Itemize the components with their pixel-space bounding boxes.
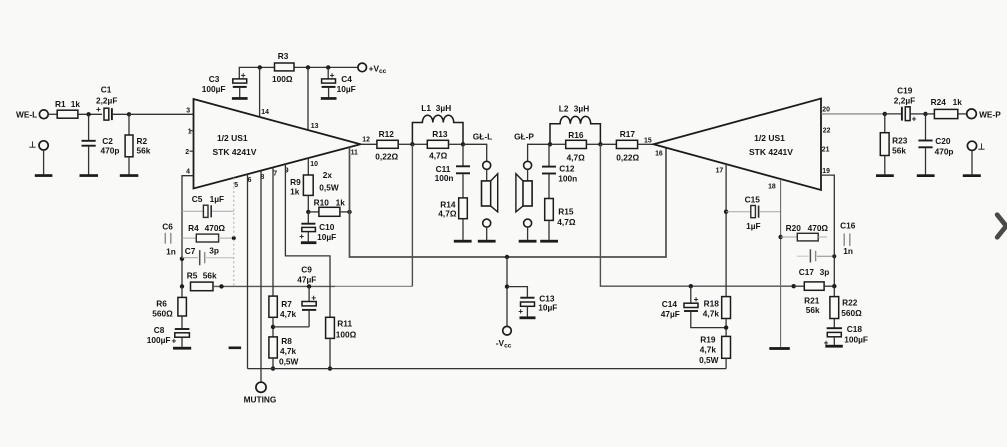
svg-text:C6: C6 <box>162 222 173 232</box>
wire pin 17 down <box>725 164 727 297</box>
inductor L1 <box>412 103 463 144</box>
svg-text:R5: R5 <box>187 270 198 280</box>
svg-text:R2: R2 <box>137 136 148 146</box>
junction C15 left node <box>724 210 728 214</box>
svg-text:R10: R10 <box>314 197 330 207</box>
svg-text:1/2 US1: 1/2 US1 <box>217 133 248 143</box>
junction C12 node <box>548 142 552 146</box>
capacitor C8 <box>147 325 190 347</box>
svg-text:10µF: 10µF <box>337 84 356 94</box>
svg-text:WE-P: WE-P <box>979 110 1001 120</box>
wire pin 7 down <box>272 167 274 296</box>
svg-text:4,7k: 4,7k <box>703 309 720 319</box>
svg-text:56k: 56k <box>892 146 906 156</box>
svg-text:⊥: ⊥ <box>978 141 985 151</box>
svg-text:100µF: 100µF <box>844 335 868 345</box>
resistor R4 <box>182 223 234 242</box>
junction R4 right node <box>232 236 236 240</box>
wire C1 to node B <box>112 113 129 115</box>
svg-text:R23: R23 <box>892 136 908 146</box>
svg-text:2,2µF: 2,2µF <box>96 95 117 105</box>
svg-text:+: + <box>518 306 523 316</box>
junction R9/R10/C10 node <box>306 210 310 214</box>
pin 1 <box>188 128 194 135</box>
svg-text:5: 5 <box>234 182 238 189</box>
svg-text:C8: C8 <box>154 325 165 335</box>
svg-text:R7: R7 <box>281 299 292 309</box>
svg-text:R17: R17 <box>620 129 636 139</box>
resistor R17 <box>600 129 653 163</box>
svg-text:560Ω: 560Ω <box>152 309 173 319</box>
speaker Gł-L <box>482 161 498 240</box>
svg-text:100Ω: 100Ω <box>272 74 293 84</box>
svg-text:1µF: 1µF <box>210 194 224 204</box>
wire pin 9 to R11 <box>285 164 330 317</box>
svg-text:R22: R22 <box>842 298 858 308</box>
wire to speaker right <box>528 144 550 161</box>
svg-text:470p: 470p <box>935 147 954 157</box>
junction C17 right node <box>832 254 836 258</box>
capacitor C2 <box>82 114 120 174</box>
resistor R12 <box>375 129 412 161</box>
svg-text:R20: R20 <box>786 223 802 233</box>
junction R16/R17 node <box>598 142 602 146</box>
capacitor C19 <box>885 86 926 124</box>
svg-text:1µF: 1µF <box>746 221 760 231</box>
ground under C13 <box>520 316 536 319</box>
ground under C3 <box>232 97 248 100</box>
svg-text:21: 21 <box>822 147 830 154</box>
inductor L2 <box>550 104 600 145</box>
svg-text:17: 17 <box>716 168 724 175</box>
capacitor C20 <box>918 114 953 174</box>
svg-text:560Ω: 560Ω <box>841 308 862 318</box>
ground under speaker Gł-L <box>478 240 496 243</box>
svg-text:1/2 US1: 1/2 US1 <box>754 133 785 143</box>
svg-text:56k: 56k <box>203 270 217 280</box>
svg-text:12: 12 <box>362 136 370 143</box>
svg-text:4,7k: 4,7k <box>280 346 297 356</box>
svg-text:C12: C12 <box>559 164 575 174</box>
svg-text:C9: C9 <box>301 264 312 274</box>
svg-text:10µF: 10µF <box>538 303 557 313</box>
wire R1 to node A <box>78 113 102 115</box>
svg-text:4,7k: 4,7k <box>280 309 297 319</box>
ground under R14 <box>454 240 472 243</box>
junction C20 node <box>923 112 927 116</box>
svg-text:STK 4241V: STK 4241V <box>749 147 793 157</box>
svg-text:19: 19 <box>822 168 830 175</box>
svg-text:+: + <box>96 104 101 114</box>
svg-text:C18: C18 <box>847 324 863 334</box>
capacitor C15 <box>726 194 781 231</box>
resistor R22 <box>830 286 862 328</box>
svg-text:470p: 470p <box>101 145 120 155</box>
resistor R14 <box>438 198 467 240</box>
svg-text:4,7k: 4,7k <box>700 345 717 355</box>
wire R16 node down to right rail <box>600 144 793 286</box>
svg-text:R18: R18 <box>704 299 720 309</box>
wire pin 14 <box>259 67 261 117</box>
chevron next-arrow <box>997 215 1006 237</box>
svg-text:4,7Ω: 4,7Ω <box>567 152 586 162</box>
svg-text:R3: R3 <box>278 51 289 61</box>
svg-text:R24: R24 <box>931 97 947 107</box>
junction R10 right node <box>347 210 351 214</box>
svg-text:1k: 1k <box>71 99 81 109</box>
wire L1 node down <box>411 144 413 286</box>
svg-text:100n: 100n <box>435 173 454 183</box>
capacitor C1 <box>96 84 117 120</box>
resistor R10 <box>308 197 349 216</box>
op-amp U1b 1/2 US1 STK4241V <box>654 99 822 191</box>
ground under C18 <box>825 345 843 348</box>
junction R3 right node <box>306 65 310 69</box>
capacitor C14 <box>661 286 726 327</box>
junction mid rail C13 node <box>505 255 509 259</box>
ground under C2 <box>80 174 99 177</box>
svg-text:15: 15 <box>644 137 652 144</box>
resistor R3 <box>272 51 294 84</box>
svg-text:R1: R1 <box>55 99 66 109</box>
op-amp U1a 1/2 US1 STK4241V <box>194 99 361 189</box>
wire to speaker left <box>463 144 487 161</box>
svg-text:10µF: 10µF <box>317 232 336 242</box>
capacitor C4 <box>322 67 356 97</box>
ground under speaker Gł-P <box>519 240 537 243</box>
resistor R24 <box>926 97 967 119</box>
svg-text:3p: 3p <box>209 245 219 255</box>
svg-text:100µF: 100µF <box>147 335 171 345</box>
svg-text:56k: 56k <box>137 146 151 156</box>
terminal MUTING <box>244 382 277 404</box>
junction R5 right node <box>219 284 223 288</box>
svg-text:⊥: ⊥ <box>29 140 36 150</box>
junction R18/R19 node <box>724 325 728 329</box>
terminal -Vcc <box>496 326 512 349</box>
resistor R7 <box>269 296 297 337</box>
capacitor C18 <box>824 324 868 347</box>
svg-text:R15: R15 <box>558 207 574 217</box>
svg-text:3p: 3p <box>820 267 830 277</box>
resistor R6 <box>152 286 186 328</box>
junction R8 bottom node <box>271 366 275 370</box>
svg-text:18: 18 <box>768 183 776 190</box>
resistor R23 <box>880 114 907 174</box>
svg-text:C19: C19 <box>897 86 913 96</box>
svg-text:+: + <box>912 113 917 123</box>
speaker Gł-P <box>516 161 532 240</box>
capacitor C17 <box>797 249 834 277</box>
resistor R13 <box>412 129 463 161</box>
wire pin 8 muting <box>260 171 262 383</box>
svg-text:L2: L2 <box>559 104 569 114</box>
junction node A <box>86 112 90 116</box>
ground under R2 <box>120 174 139 177</box>
junction C14 node <box>689 284 693 288</box>
svg-text:1: 1 <box>188 128 192 135</box>
ground under R15 <box>540 240 558 243</box>
svg-text:1k: 1k <box>290 186 300 196</box>
pin 2 <box>185 149 193 156</box>
wire pin 4 down <box>182 176 194 287</box>
ground under left terminal <box>35 174 53 177</box>
svg-text:16: 16 <box>655 150 663 157</box>
wire node B to pin 3 <box>129 113 194 115</box>
ground under C8 <box>173 347 191 350</box>
junction C4 node <box>326 65 330 69</box>
svg-text:47µF: 47µF <box>297 274 316 284</box>
svg-text:STK 4241V: STK 4241V <box>213 147 257 157</box>
ground under pin 18 <box>769 347 790 350</box>
capacitor C7 <box>182 245 234 265</box>
resistor R11 <box>326 317 357 368</box>
svg-text:C20: C20 <box>935 136 951 146</box>
junction C13 branch node <box>505 284 509 288</box>
svg-text:1n: 1n <box>166 246 176 256</box>
wire pin 19 down <box>821 175 834 286</box>
svg-text:470Ω: 470Ω <box>808 223 829 233</box>
svg-text:R8: R8 <box>281 336 292 346</box>
svg-text:C1: C1 <box>101 84 112 94</box>
ground under right terminal <box>963 174 981 177</box>
capacitor C13 <box>507 287 557 317</box>
svg-text:R11: R11 <box>337 319 352 329</box>
svg-text:47µF: 47µF <box>661 309 680 319</box>
svg-text:C15: C15 <box>745 194 761 204</box>
capacitor C6 <box>162 222 175 257</box>
svg-text:7: 7 <box>273 171 277 178</box>
svg-text:C5: C5 <box>192 194 203 204</box>
svg-text:10: 10 <box>310 161 318 168</box>
svg-text:2x: 2x <box>323 170 333 180</box>
capacitor C9 <box>273 264 316 327</box>
svg-text:11: 11 <box>351 150 358 157</box>
ground under C4 <box>321 97 337 100</box>
label 2x 0,5W <box>319 170 339 192</box>
svg-text:0,22Ω: 0,22Ω <box>375 151 398 161</box>
junction R11 bottom node <box>328 366 332 370</box>
svg-text:6: 6 <box>248 177 252 184</box>
wire pin 13 <box>307 67 309 129</box>
terminal WE-L <box>16 110 48 120</box>
wire C13 down <box>506 257 508 326</box>
svg-text:100µF: 100µF <box>202 84 226 94</box>
ground under C10 <box>301 241 317 244</box>
capacitor C10 <box>299 212 336 242</box>
resistor R21 <box>794 282 835 315</box>
svg-text:GŁ-P: GŁ-P <box>514 132 534 142</box>
svg-text:4,7Ω: 4,7Ω <box>429 151 448 161</box>
svg-text:1n: 1n <box>843 246 853 256</box>
wire pin 5 down (faint) <box>233 178 235 287</box>
wire pin 20 to C19 <box>821 113 885 115</box>
capacitor C3 <box>202 67 260 97</box>
svg-text:C4: C4 <box>341 74 352 84</box>
svg-text:WE-L: WE-L <box>16 110 37 120</box>
wire +Vcc rail <box>260 66 275 68</box>
svg-text:56k: 56k <box>806 305 820 315</box>
svg-text:0,5W: 0,5W <box>319 183 339 193</box>
svg-text:2: 2 <box>185 149 189 156</box>
resistor R16 <box>550 130 600 162</box>
svg-text:MUTING: MUTING <box>244 395 277 405</box>
resistor R9 <box>290 175 313 212</box>
svg-text:0,5W: 0,5W <box>699 355 719 365</box>
svg-text:0,5W: 0,5W <box>279 357 299 367</box>
junction R13/C11 node <box>461 142 465 146</box>
svg-text:0,22Ω: 0,22Ω <box>616 153 639 163</box>
resistor R2 <box>125 114 151 174</box>
resistor R19 <box>699 335 730 369</box>
wire pin 18 down to ground <box>780 179 782 347</box>
terminal WE-P <box>967 109 1002 120</box>
svg-text:4,7Ω: 4,7Ω <box>438 209 457 219</box>
terminal ground-left <box>29 140 48 175</box>
junction R12/L1 node <box>410 142 414 146</box>
svg-text:C16: C16 <box>840 220 856 230</box>
junction R6 node <box>180 284 184 288</box>
svg-text:470Ω: 470Ω <box>205 223 226 233</box>
svg-text:100n: 100n <box>558 174 577 184</box>
resistor R20 <box>781 223 829 241</box>
svg-text:4,7Ω: 4,7Ω <box>557 217 576 227</box>
junction C7 left node <box>180 257 184 261</box>
svg-text:14: 14 <box>261 109 269 116</box>
wire pin 6 down <box>247 174 249 368</box>
svg-text:R12: R12 <box>379 129 395 139</box>
svg-text:13: 13 <box>311 123 319 130</box>
svg-text:3: 3 <box>186 108 190 115</box>
junction R20 left node <box>778 235 782 239</box>
svg-text:+: + <box>172 335 177 345</box>
wire pin 12 to R12 <box>361 143 377 145</box>
wire pin 10 to R9 <box>307 158 309 175</box>
capacitor C5 <box>182 194 234 217</box>
svg-text:4: 4 <box>186 168 190 175</box>
svg-text:3µH: 3µH <box>436 103 451 113</box>
capacitor C16 <box>840 220 856 256</box>
svg-text:R16: R16 <box>568 130 584 140</box>
svg-text:L1: L1 <box>421 103 431 113</box>
svg-text:1k: 1k <box>953 97 963 107</box>
ground under C20 <box>917 174 935 177</box>
junction R23 node <box>883 112 887 116</box>
resistor R15 <box>545 199 576 240</box>
resistor R8 <box>269 336 299 369</box>
svg-text:R4: R4 <box>188 223 199 233</box>
wire pin 5 end dash <box>229 347 242 350</box>
svg-text:20: 20 <box>822 106 830 113</box>
svg-text:22: 22 <box>823 127 831 134</box>
svg-text:C10: C10 <box>319 222 335 232</box>
junction C3 node <box>258 65 262 69</box>
svg-text:1k: 1k <box>336 197 346 207</box>
svg-text:+: + <box>299 231 304 241</box>
svg-text:GŁ-L: GŁ-L <box>473 132 492 142</box>
svg-text:3µH: 3µH <box>574 104 589 114</box>
junction R22 node <box>832 284 836 288</box>
wire bottom rail <box>248 368 727 370</box>
svg-text:C7: C7 <box>185 246 196 256</box>
junction R21 left node <box>792 284 796 288</box>
svg-text:C17: C17 <box>799 267 815 277</box>
junction node B <box>127 112 131 116</box>
svg-text:R6: R6 <box>156 299 167 309</box>
resistor R18 <box>703 297 731 337</box>
resistor R5 <box>187 270 217 290</box>
svg-text:100Ω: 100Ω <box>336 330 357 340</box>
ground under R23 <box>876 174 894 177</box>
junction R7/R8 node <box>271 325 275 329</box>
svg-text:R13: R13 <box>432 129 448 139</box>
svg-text:C3: C3 <box>209 74 220 84</box>
wire feedback rail left <box>213 285 335 287</box>
capacitor C11 <box>435 144 470 198</box>
terminal +Vcc <box>358 63 387 75</box>
svg-text:R21: R21 <box>804 296 820 306</box>
svg-text:2,2µF: 2,2µF <box>894 96 915 106</box>
wire pin 11 down and mid rail to pin 16 <box>350 147 667 257</box>
resistor R1 <box>55 99 80 118</box>
svg-text:R19: R19 <box>700 335 716 345</box>
svg-text:C14: C14 <box>662 299 678 309</box>
svg-text:+: + <box>694 294 699 304</box>
terminal ground-right <box>967 141 985 174</box>
wire WE-L to R1 <box>48 113 57 115</box>
capacitor C12 <box>542 144 577 198</box>
